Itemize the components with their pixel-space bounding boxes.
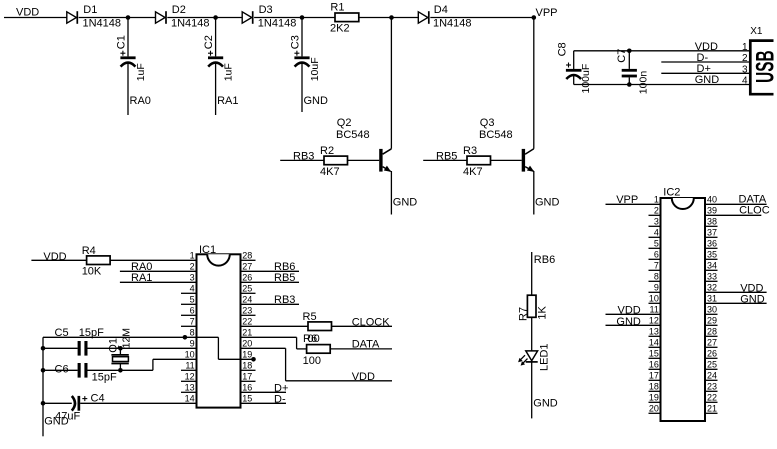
svg-text:3: 3 [190, 273, 195, 283]
svg-text:RB6: RB6 [534, 254, 555, 266]
svg-text:33: 33 [707, 272, 717, 282]
wire R3 to Q3 base [491, 159, 522, 161]
wire rail to C4 [43, 402, 72, 404]
net label CLOC (IC2 pin39) [739, 204, 770, 216]
svg-text:RA0: RA0 [130, 95, 151, 107]
label C4 [91, 393, 105, 405]
svg-text:R5: R5 [303, 311, 317, 323]
svg-text:25: 25 [242, 284, 252, 294]
IC1 pin number 26 [242, 273, 252, 283]
wire pin39 CLOC [705, 214, 761, 216]
IC2 pin number 24 [707, 371, 717, 381]
wire node to C3 [301, 18, 303, 57]
IC1 pin 23 stub [241, 314, 256, 316]
svg-text:7: 7 [654, 261, 659, 271]
IC2 pin number 28 [707, 327, 717, 337]
label X1 [750, 26, 763, 37]
wire crystal bottom stub [119, 364, 121, 371]
value 100n (C7) [637, 71, 649, 95]
IC2 pin number 16 [649, 360, 659, 370]
svg-text:21: 21 [242, 328, 252, 338]
net label GND (Q2 emitter) [393, 196, 418, 208]
svg-text:23: 23 [707, 382, 717, 392]
IC1 pin 18 stub [241, 369, 256, 371]
wire pin32 VDD [705, 291, 767, 293]
net label D+ (IC1 pin16) [274, 382, 288, 394]
label C5 [55, 327, 69, 339]
wire R4 to pin1 [110, 259, 196, 261]
net label RB6 (IC1 pin27) [274, 261, 295, 273]
svg-text:1N4148: 1N4148 [258, 18, 297, 30]
value BC548 (Q3) [479, 129, 513, 141]
IC1 pin number 10 [185, 350, 195, 360]
capacitor C6 [78, 363, 88, 378]
svg-text:Q2: Q2 [337, 117, 352, 129]
wire pin31 GND [705, 302, 767, 304]
svg-text:D4: D4 [434, 4, 448, 16]
svg-text:17: 17 [649, 371, 659, 381]
svg-text:4: 4 [742, 76, 748, 87]
wire rail to C5 [43, 347, 78, 349]
wire GND to pin8 and across body to pin19 [43, 337, 254, 359]
wire RA0 to pin2 [120, 270, 197, 272]
IC1 pin 4 stub [181, 292, 197, 294]
IC2 pin 23 stub [705, 390, 718, 392]
capacitor C2 [208, 51, 223, 67]
svg-text:34: 34 [707, 261, 717, 271]
value 1uF (C1) [135, 63, 147, 81]
pin number 4 (USB) [742, 76, 748, 87]
svg-text:15: 15 [242, 394, 252, 404]
net label RB3 (IC1 pin24) [274, 294, 295, 306]
net label GND (LED chain) [533, 397, 558, 409]
svg-text:GND: GND [740, 293, 765, 305]
label IC1 [199, 244, 216, 256]
IC1 pin 6 stub [181, 314, 197, 316]
svg-text:24: 24 [707, 371, 717, 381]
resistor R5 [308, 322, 332, 331]
label C7 (rotated) [616, 49, 628, 63]
svg-text:Q3: Q3 [480, 117, 495, 129]
IC2 pin number 25 [707, 360, 717, 370]
value 1N4148 (D4) [433, 18, 472, 30]
IC2 pin number 21 [707, 404, 717, 414]
svg-text:15pF: 15pF [79, 327, 104, 339]
svg-text:24: 24 [242, 295, 252, 305]
label R7 (rotated) [518, 307, 530, 321]
IC IC1 body [197, 254, 241, 407]
svg-text:19: 19 [242, 350, 252, 360]
capacitor C3 [294, 51, 309, 67]
junction node C2 [213, 15, 218, 20]
wire C2 to RA1 [215, 63, 217, 115]
IC1 pin number 20 [242, 339, 252, 349]
junction GND rail C6 [41, 368, 46, 373]
IC2 pin 30 stub [705, 313, 718, 315]
IC2 pin 3 stub [649, 225, 661, 227]
svg-text:2: 2 [190, 262, 195, 272]
IC2 pin number 6 [654, 250, 659, 260]
junction C7 top [627, 49, 632, 54]
diode D4 [418, 11, 429, 24]
IC2 pin 24 stub [705, 379, 718, 381]
wire USB D- stub [661, 61, 749, 63]
svg-text:USB: USB [752, 50, 777, 83]
svg-text:20: 20 [242, 339, 252, 349]
IC2 pin 21 stub [705, 412, 718, 414]
label C1 (rotated) [115, 35, 127, 49]
label D4 [434, 4, 448, 16]
connector X1 USB body [750, 41, 773, 95]
IC2 pin 35 stub [705, 258, 718, 260]
IC2 pin 2 stub [649, 214, 661, 216]
transistor Q3 [522, 18, 535, 215]
IC1 pin number 13 [185, 383, 195, 393]
resistor R1 [335, 13, 359, 22]
svg-text:4K7: 4K7 [463, 166, 483, 178]
svg-text:14: 14 [649, 338, 659, 348]
IC1 pin 11 stub [181, 369, 197, 371]
svg-text:35: 35 [707, 250, 717, 260]
svg-text:1N4148: 1N4148 [171, 18, 210, 30]
wire D4 to VPP [430, 17, 534, 19]
svg-text:4K7: 4K7 [320, 166, 340, 178]
net label VPP [536, 7, 558, 19]
net label VDD (IC1 pin1) [43, 251, 66, 263]
net label VDD (IC1 pin20) [352, 371, 375, 383]
wire pin20 to VDD [241, 348, 393, 381]
IC1 pin number 1 [190, 251, 195, 261]
net label RA0 (IC1 pin2) [131, 261, 152, 273]
IC2 pin number 4 [654, 228, 659, 238]
svg-text:D-: D- [274, 393, 286, 405]
label USB (rotated) [752, 50, 777, 83]
IC2 pin number 27 [707, 338, 717, 348]
IC2 pin number 35 [707, 250, 717, 260]
IC2 pin number 3 [654, 217, 659, 227]
wire pin26 RB5 [241, 281, 300, 283]
IC2 pin number 15 [649, 349, 659, 359]
IC1 pin number 24 [242, 295, 252, 305]
resistor R7 [527, 295, 536, 317]
value 1N4148 (D2) [171, 18, 210, 30]
IC2 pin 29 stub [705, 324, 718, 326]
IC2 pin number 29 [707, 316, 717, 326]
label R3 [463, 145, 477, 157]
label C3 (rotated) [289, 35, 301, 49]
svg-text:C8: C8 [557, 42, 569, 56]
IC2 pin number 26 [707, 349, 717, 359]
net label RA1 (IC1 pin3) [131, 272, 152, 284]
svg-text:37: 37 [707, 228, 717, 238]
svg-text:IC2: IC2 [663, 186, 680, 198]
junction GND rail C5 [41, 346, 46, 351]
wire C4 to pin14 [80, 402, 196, 404]
wire pin40 DATA [705, 203, 767, 205]
svg-text:10: 10 [185, 350, 195, 360]
svg-text:15pF: 15pF [92, 371, 117, 383]
svg-text:100uF: 100uF [580, 64, 592, 94]
wire VPP to pin1 [606, 203, 661, 205]
IC2 pin number 22 [707, 393, 717, 403]
svg-text:GND: GND [616, 316, 641, 328]
diode D2 [156, 11, 167, 24]
svg-text:GND: GND [304, 95, 329, 107]
svg-text:15: 15 [649, 349, 659, 359]
IC2 pin number 9 [654, 283, 659, 293]
net label DATA [352, 338, 380, 350]
junction pin8 stub [183, 335, 188, 340]
resistor R6 [307, 345, 331, 354]
pin label VDD (USB 1) [695, 41, 718, 53]
label R6 (overlapped) [303, 333, 320, 345]
svg-text:27: 27 [707, 338, 717, 348]
label R4 [82, 245, 96, 257]
junction pin19 stub [251, 357, 256, 362]
wire C5 to pin9 [88, 347, 197, 349]
junction node C3 [300, 15, 305, 20]
pin label D- (USB 2) [697, 52, 709, 64]
IC2 pin 38 stub [705, 225, 718, 227]
svg-text:1uF: 1uF [223, 63, 235, 81]
svg-text:D1: D1 [83, 4, 97, 16]
net label D- (IC1 pin15) [274, 393, 286, 405]
junction node Q2 collector [389, 15, 394, 20]
svg-text:GND: GND [695, 74, 720, 86]
label Q2 [337, 117, 352, 129]
wire C8 top [573, 51, 575, 69]
IC1 pin number 7 [190, 317, 195, 327]
svg-text:IC1: IC1 [199, 244, 216, 256]
IC2 pin 13 stub [649, 335, 661, 337]
svg-text:1N4148: 1N4148 [83, 18, 122, 30]
IC1 pin number 27 [242, 262, 252, 272]
value 4K7 (R2) [320, 166, 340, 178]
IC2 pin number 14 [649, 338, 659, 348]
label C6 [55, 363, 69, 375]
net label DATA (IC2 pin40) [739, 193, 767, 205]
IC2 pin number 11 [650, 305, 659, 315]
IC2 pin number 17 [649, 371, 659, 381]
IC2 pin 28 stub [705, 335, 718, 337]
wire crystal top stub [119, 348, 121, 355]
junction node C1 [126, 15, 131, 20]
wire RB6 to R7 [531, 252, 533, 295]
label D3 [259, 4, 273, 16]
capacitor C1 [120, 51, 135, 67]
svg-text:C1: C1 [115, 35, 127, 49]
wire C7 top [628, 51, 630, 69]
IC2 pin 22 stub [705, 401, 718, 403]
svg-text:VDD: VDD [43, 251, 66, 263]
wire R2 to Q2 base [348, 159, 380, 161]
svg-text:CLOCK: CLOCK [352, 316, 391, 328]
IC1 pin 17 stub [241, 380, 256, 382]
svg-text:C5: C5 [55, 327, 69, 339]
IC2 pin 37 stub [705, 236, 718, 238]
IC2 pin number 1 [654, 195, 659, 205]
wire GND to pin12 [606, 324, 661, 326]
IC1 pin number 9 [190, 339, 195, 349]
diode D1 [67, 11, 78, 24]
IC1 pin number 4 [190, 284, 195, 294]
IC1 pin number 21 [242, 328, 252, 338]
IC1 pin 13 stub [181, 391, 197, 393]
svg-text:VDD: VDD [16, 7, 39, 19]
IC2 pin number 13 [649, 327, 659, 337]
svg-text:1: 1 [190, 251, 195, 261]
wire R5 to CLOCK [332, 325, 393, 327]
IC1 pin number 2 [190, 262, 195, 272]
IC2 pin number 33 [707, 272, 717, 282]
svg-text:13: 13 [185, 383, 195, 393]
net label VDD (left) [16, 7, 39, 19]
svg-text:7: 7 [190, 317, 195, 327]
svg-text:40: 40 [707, 195, 717, 205]
svg-text:28: 28 [707, 327, 717, 337]
IC2 pin number 31 [707, 294, 717, 304]
pin label D+ (USB 3) [697, 63, 711, 75]
value 10K (R4) [82, 266, 102, 278]
wire D3 to R1 [254, 17, 335, 19]
net label RB5 (IC1 pin26) [274, 272, 295, 284]
svg-text:2: 2 [654, 206, 659, 216]
svg-text:8: 8 [654, 272, 659, 282]
IC2 pin number 34 [707, 261, 717, 271]
value 12M (Q1) [121, 328, 133, 348]
svg-text:12: 12 [649, 316, 659, 326]
svg-text:9: 9 [190, 339, 195, 349]
junction C7 bottom [627, 82, 632, 87]
IC1 pin number 15 [242, 394, 252, 404]
IC2 pin number 12 [649, 316, 659, 326]
IC IC2 body [661, 198, 706, 421]
svg-text:R1: R1 [330, 2, 344, 14]
transistor Q2 [379, 18, 391, 215]
svg-text:C2: C2 [203, 35, 215, 49]
IC2 pin 19 stub [649, 401, 661, 403]
IC2 pin 7 stub [649, 269, 661, 271]
IC2 pin 36 stub [705, 247, 718, 249]
value BC548 (Q2) [336, 129, 370, 141]
net label GND (IC2 pin12) [616, 316, 641, 328]
svg-text:23: 23 [242, 306, 252, 316]
IC2 pin 15 stub [649, 357, 661, 359]
svg-text:D3: D3 [259, 4, 273, 16]
svg-text:100n: 100n [637, 71, 649, 95]
wire RB3 to R2 [280, 159, 324, 161]
svg-text:VPP: VPP [536, 7, 558, 19]
svg-text:22: 22 [707, 393, 717, 403]
svg-text:VDD: VDD [352, 371, 375, 383]
IC2 pin 18 stub [649, 390, 661, 392]
value 15pF (C5) [79, 327, 104, 339]
svg-text:30: 30 [707, 305, 717, 315]
svg-text:1: 1 [742, 42, 748, 53]
net label RA0 under C1 [130, 95, 151, 107]
svg-text:D-: D- [697, 52, 709, 64]
net label VPP (IC2 pin1) [616, 194, 638, 206]
svg-text:GND: GND [533, 397, 558, 409]
svg-text:11: 11 [650, 305, 659, 315]
IC2 pin number 30 [707, 305, 717, 315]
IC2 pin 27 stub [705, 346, 718, 348]
net label GND under C3 [304, 95, 329, 107]
IC2 pin 34 stub [705, 269, 718, 271]
svg-text:32: 32 [707, 283, 717, 293]
label D1 [83, 4, 97, 16]
svg-text:10K: 10K [82, 266, 102, 278]
wire VDD to pin11 [606, 313, 661, 315]
svg-text:GND: GND [393, 196, 418, 208]
IC2 pin 9 stub [649, 291, 661, 293]
svg-text:16: 16 [649, 360, 659, 370]
wire D1 to node RA0 [79, 17, 156, 19]
IC1 pin number 28 [242, 251, 252, 261]
diode D3 [242, 11, 253, 24]
IC2 pin number 10 [649, 294, 659, 304]
value 100uF (C8) [580, 64, 592, 94]
svg-text:DATA: DATA [352, 338, 380, 350]
svg-text:R7: R7 [518, 307, 530, 321]
pin number 1 (USB) [742, 42, 748, 53]
IC1 pin number 11 [185, 361, 194, 371]
wire rail to C6 [43, 369, 78, 371]
IC1 pin number 17 [242, 372, 252, 382]
IC2 pin number 19 [649, 393, 659, 403]
IC1 pin number 5 [190, 295, 195, 305]
capacitor C5 [78, 341, 88, 356]
plus sign C4 [82, 396, 87, 401]
svg-text:19: 19 [649, 393, 659, 403]
svg-text:C7: C7 [616, 49, 628, 63]
svg-text:3: 3 [654, 217, 659, 227]
IC1 pin number 8 [190, 328, 195, 338]
svg-text:38: 38 [707, 217, 717, 227]
junction GND rail C4 [41, 401, 46, 406]
capacitor C8 [566, 63, 582, 80]
value 1uF (C2) [223, 63, 235, 81]
IC1 pin number 22 [242, 317, 252, 327]
IC1 pin number 18 [242, 361, 252, 371]
IC2 pin 6 stub [649, 258, 661, 260]
junction crystal top [118, 346, 123, 351]
wire R6 to DATA [330, 348, 392, 350]
IC2 pin number 2 [654, 206, 659, 216]
value 47uF (C4) [55, 411, 80, 423]
net label CLOCK [352, 316, 391, 328]
IC2 pin 20 stub [649, 412, 661, 414]
IC2 pin number 18 [649, 382, 659, 392]
svg-text:17: 17 [242, 372, 252, 382]
svg-text:13: 13 [649, 327, 659, 337]
net label RB3 [293, 150, 314, 162]
wire pin15 D- [241, 402, 287, 404]
net label RB5 [436, 150, 457, 162]
svg-text:LED1: LED1 [539, 343, 551, 371]
svg-text:C6: C6 [55, 363, 69, 375]
IC1 pin 28 stub [241, 259, 256, 261]
IC2 pin number 38 [707, 217, 717, 227]
svg-text:28: 28 [242, 251, 252, 261]
resistor R4 [87, 256, 111, 265]
svg-text:8: 8 [190, 328, 195, 338]
IC2 pin 14 stub [649, 346, 661, 348]
value 100 (R6) [303, 355, 321, 367]
svg-text:9: 9 [654, 283, 659, 293]
svg-text:36: 36 [707, 239, 717, 249]
label LED1 (rotated) [539, 343, 551, 371]
